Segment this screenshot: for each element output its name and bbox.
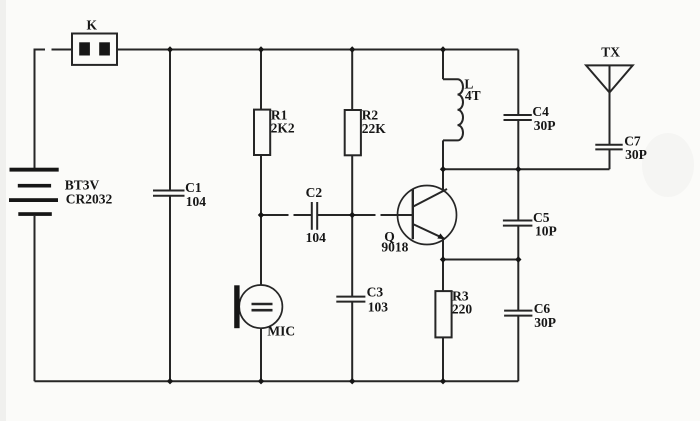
- wire emitter node to R3: [442, 260, 444, 292]
- wire C5 to node: [517, 226, 519, 260]
- antenna TX: [586, 65, 633, 92]
- svg-text:CR2032: CR2032: [66, 191, 113, 206]
- capacitor C4: [504, 115, 532, 120]
- wire C1 branch lower: [169, 196, 171, 382]
- svg-text:104: 104: [306, 230, 327, 245]
- wire L bottom to node: [442, 140, 444, 169]
- capacitor C2: [312, 202, 317, 230]
- svg-text:C2: C2: [306, 185, 323, 200]
- wire antenna branch corner: [609, 149, 611, 169]
- svg-text:220: 220: [452, 302, 473, 317]
- wire MIC to bottom rail: [260, 328, 262, 381]
- svg-text:K: K: [87, 18, 98, 33]
- svg-text:C6: C6: [534, 301, 551, 316]
- svg-text:104: 104: [186, 194, 207, 209]
- wire emitter to node: [442, 239, 444, 260]
- svg-text:TX: TX: [601, 45, 620, 60]
- capacitor C3: [336, 297, 365, 302]
- microphone MIC: [234, 285, 282, 328]
- svg-text:2K2: 2K2: [271, 121, 295, 136]
- svg-text:4T: 4T: [465, 88, 481, 103]
- svg-text:10P: 10P: [535, 224, 557, 239]
- wire node to collector: [442, 169, 444, 190]
- svg-text:BT3V: BT3V: [65, 178, 100, 193]
- wire base line right dash: [381, 214, 413, 216]
- capacitor C6: [504, 311, 532, 316]
- wire C4 to node: [517, 120, 519, 169]
- switch K: [72, 34, 117, 65]
- resistor R1: [254, 110, 270, 155]
- wire node to C6: [517, 260, 519, 311]
- battery BT3V: [9, 168, 59, 216]
- svg-text:C3: C3: [367, 285, 384, 300]
- node emitter right: [515, 256, 521, 262]
- capacitor C7: [595, 145, 622, 150]
- wire C1 branch upper: [169, 50, 171, 191]
- wire tank top horizontal: [443, 168, 610, 170]
- wire base line left: [261, 214, 289, 216]
- node bottom R3: [440, 378, 446, 384]
- wire base line left dash: [294, 214, 312, 216]
- inductor L 4T: [443, 79, 463, 140]
- wire left rail lower: [34, 216, 36, 381]
- wire emitter horizontal: [443, 259, 518, 261]
- wire R3 to bottom rail: [442, 337, 444, 381]
- wire C3 to bottom rail: [351, 302, 353, 382]
- wire top rail left dash: [52, 49, 73, 51]
- node bottom C3: [349, 378, 355, 384]
- svg-text:30P: 30P: [625, 147, 647, 162]
- svg-text:103: 103: [368, 299, 389, 314]
- svg-text:22K: 22K: [362, 121, 387, 136]
- wire R2 branch upper: [351, 50, 353, 111]
- wire R1 branch upper: [260, 50, 262, 110]
- wire R1 bottom to MIC: [260, 155, 262, 285]
- node emitter left: [440, 256, 446, 262]
- wire C6 to bottom rail: [517, 316, 519, 382]
- wire R2 bottom to C3: [351, 155, 353, 296]
- svg-text:9018: 9018: [381, 240, 408, 255]
- resistor R3: [435, 291, 451, 337]
- svg-text:MIC: MIC: [267, 324, 295, 339]
- capacitor C1: [153, 191, 185, 196]
- capacitor C5: [503, 221, 533, 226]
- node base R2: [349, 212, 355, 218]
- wire right rail top corner down to C4: [517, 50, 519, 116]
- node top R2: [349, 46, 355, 52]
- wire top rail main segment: [117, 49, 518, 51]
- node top L: [440, 46, 446, 52]
- wire collector branch top: [442, 50, 444, 80]
- wire base line mid: [317, 214, 375, 216]
- wire top rail left segment: [35, 50, 46, 169]
- svg-text:30P: 30P: [534, 315, 556, 330]
- svg-text:C1: C1: [185, 180, 202, 195]
- wire node to C5: [517, 169, 519, 220]
- wire bottom rail: [35, 380, 519, 382]
- svg-text:30P: 30P: [534, 118, 556, 133]
- node top C1: [167, 46, 173, 52]
- svg-text:C4: C4: [532, 104, 549, 119]
- node bottom C1: [167, 378, 173, 384]
- node collector right: [515, 166, 521, 172]
- node bottom MIC: [258, 378, 264, 384]
- wire C7 to antenna: [609, 93, 611, 145]
- node top R1: [258, 46, 264, 52]
- node base R1: [258, 212, 264, 218]
- transistor Q 9018: [398, 186, 457, 245]
- resistor R2: [345, 110, 361, 155]
- node collector left: [440, 166, 446, 172]
